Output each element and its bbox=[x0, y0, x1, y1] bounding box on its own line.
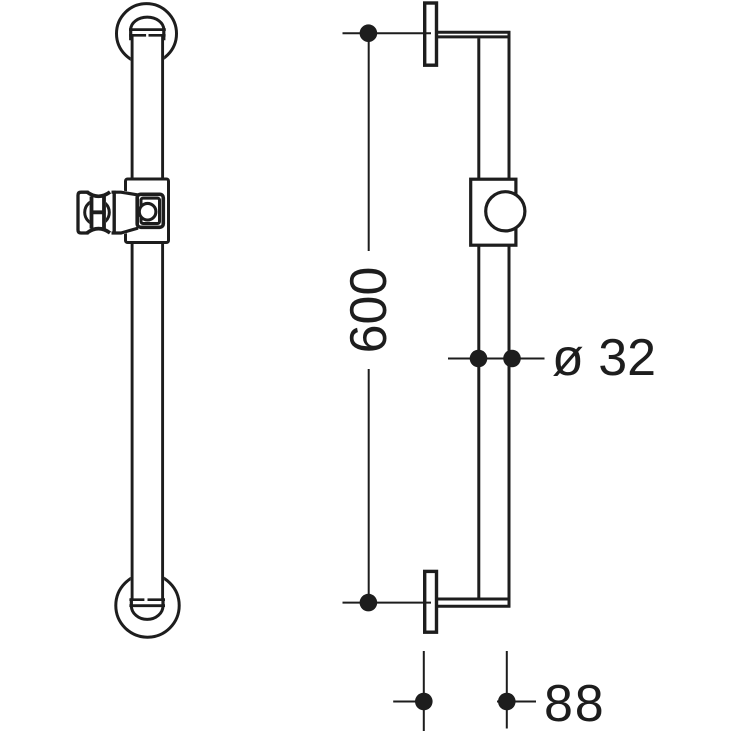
svg-text:88: 88 bbox=[544, 675, 605, 733]
svg-text:600: 600 bbox=[340, 267, 398, 354]
svg-text:ø 32: ø 32 bbox=[552, 329, 656, 387]
